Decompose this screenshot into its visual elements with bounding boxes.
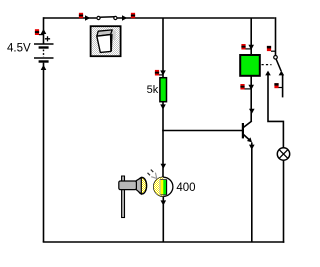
wire bottom rail	[43, 241, 285, 243]
current arrow top rail left (right)	[85, 15, 90, 21]
light arrow onto LDR	[148, 170, 157, 179]
svg-text:400: 400	[176, 182, 195, 194]
resistor R1	[160, 78, 167, 102]
wire resistor branch from top rail	[162, 18, 164, 78]
probe marker relay coil top	[241, 44, 251, 50]
wire left rail below battery	[43, 63, 45, 242]
LDR R2	[154, 177, 173, 196]
probe marker relay coil bottom	[240, 84, 251, 90]
current arrow above battery (up)	[41, 29, 47, 34]
wire lamp to bottom rail	[283, 161, 285, 243]
wire left rail above battery	[43, 17, 45, 43]
probe marker resistor R1	[155, 70, 163, 76]
wire relay coil to transistor collector	[250, 76, 252, 121]
battery B1	[34, 36, 54, 63]
wire LDR bottom to bottom rail	[162, 196, 164, 242]
current arrow below emitter (down)	[249, 145, 255, 150]
current arrow below LDR (down)	[161, 200, 167, 205]
current arrow above LDR (down)	[161, 164, 167, 169]
probe marker relay contact common	[267, 46, 276, 51]
wire relay coil branch from top rail	[250, 18, 252, 55]
probe marker top rail right	[131, 13, 135, 18]
switch SW1 button box	[91, 26, 121, 56]
current arrow above collector (down)	[249, 109, 255, 114]
current arrow top rail right of switch (right)	[122, 15, 127, 21]
wire base branch horizontal	[162, 130, 242, 132]
switch SW1 contact	[97, 16, 117, 19]
current arrow above relay coil (down)	[248, 45, 254, 50]
wire relay contact common drop	[275, 17, 277, 55]
wire transistor emitter to bottom rail	[251, 142, 253, 242]
current arrow below battery (up)	[41, 65, 47, 70]
torch light source	[119, 176, 147, 218]
svg-text:4.5V: 4.5V	[7, 43, 31, 55]
svg-text:5k: 5k	[147, 84, 159, 96]
relay coil K1	[240, 55, 260, 76]
probe marker battery	[35, 29, 44, 35]
wire relay NO contact stub	[282, 75, 284, 98]
probe marker relay NO contact	[274, 83, 282, 88]
wire top rail right segment	[118, 17, 275, 19]
lamp L1	[277, 148, 289, 160]
wire resistor bottom to LDR top	[162, 102, 164, 178]
transistor Q1	[243, 121, 252, 142]
wire relay NC contact to lamp	[268, 75, 283, 148]
wire top rail left segment	[44, 17, 97, 19]
probe marker top rail left	[79, 13, 83, 18]
current arrow below resistor (down)	[160, 104, 166, 109]
current arrow below relay coil (down)	[248, 85, 254, 90]
current arrow above resistor (down)	[160, 70, 166, 75]
relay contact K1	[262, 56, 285, 76]
